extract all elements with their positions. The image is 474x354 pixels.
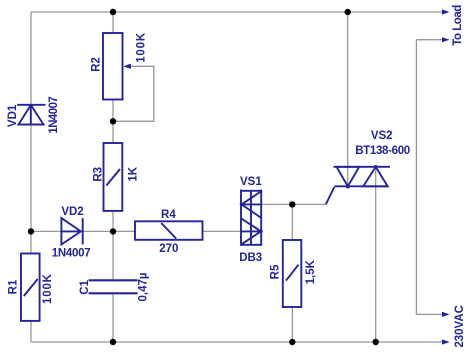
svg-text:100K: 100K xyxy=(42,273,54,304)
svg-text:VS1: VS1 xyxy=(240,176,262,188)
svg-text:DB3: DB3 xyxy=(239,252,262,264)
svg-text:To Load: To Load xyxy=(452,5,464,46)
svg-text:R2: R2 xyxy=(91,57,103,72)
svg-text:VD1: VD1 xyxy=(7,104,19,127)
svg-text:1K: 1K xyxy=(128,166,140,181)
svg-text:R1: R1 xyxy=(8,279,20,294)
svg-text:0,47µ: 0,47µ xyxy=(138,273,150,302)
svg-text:BT138-600: BT138-600 xyxy=(355,145,410,157)
svg-text:VS2: VS2 xyxy=(371,130,393,142)
svg-text:230VAC: 230VAC xyxy=(454,305,466,348)
svg-text:R4: R4 xyxy=(161,209,176,221)
svg-text:1N4007: 1N4007 xyxy=(52,248,91,260)
svg-text:VD2: VD2 xyxy=(61,206,83,218)
svg-text:1N4007: 1N4007 xyxy=(48,96,60,133)
svg-text:R3: R3 xyxy=(93,167,105,182)
svg-text:1,5K: 1,5K xyxy=(305,259,317,284)
svg-text:100K: 100K xyxy=(136,32,148,63)
svg-text:270: 270 xyxy=(159,243,178,255)
svg-text:R5: R5 xyxy=(270,264,282,279)
svg-text:C1: C1 xyxy=(79,279,91,294)
